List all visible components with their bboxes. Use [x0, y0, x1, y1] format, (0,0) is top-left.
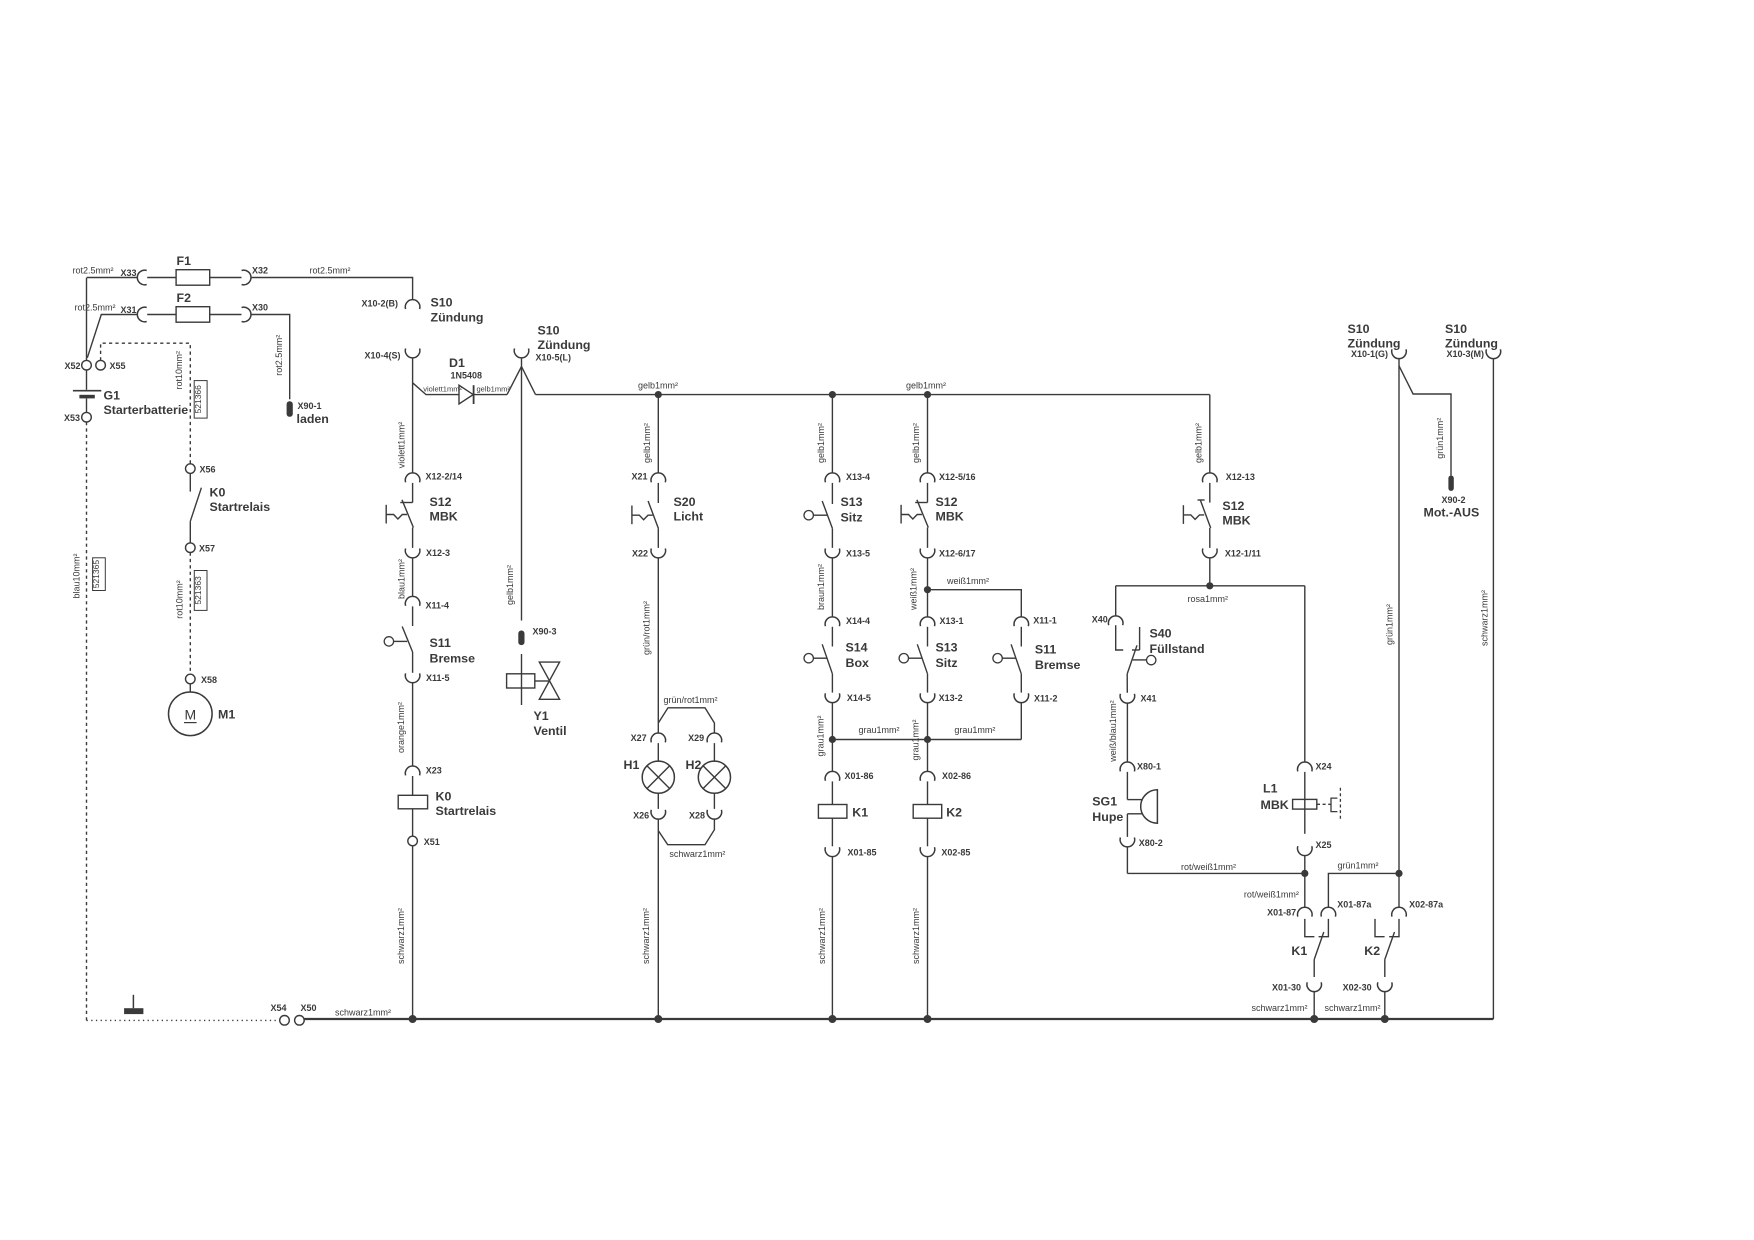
svg-text:X80-1: X80-1 — [1137, 762, 1161, 772]
svg-text:X14-4: X14-4 — [846, 616, 870, 626]
op S12-2 top bar — [915, 502, 927, 504]
svg-text:grau1mm²: grau1mm² — [911, 719, 921, 760]
wire S13 to X13-5 — [831, 528, 833, 548]
svg-text:X13-5: X13-5 — [846, 549, 870, 559]
wire F1 left lead — [147, 277, 176, 279]
actuator S12 MBK-1 — [385, 505, 387, 524]
connector X12-6/17 — [920, 549, 935, 558]
connector X27 — [651, 733, 666, 742]
switch S13 Sitz-1 blade — [822, 501, 832, 528]
svg-text:schwarz1mm²: schwarz1mm² — [396, 908, 406, 964]
svg-text:S10: S10 — [1348, 322, 1370, 336]
svg-text:rot2.5mm²: rot2.5mm² — [73, 266, 114, 276]
svg-text:X13-4: X13-4 — [846, 472, 870, 482]
svg-text:X53: X53 — [64, 413, 80, 423]
connector X31 — [137, 307, 146, 322]
terminal X55 — [96, 360, 106, 370]
wire blau X12-3 to X11-4 — [412, 558, 414, 597]
connector X30 — [242, 307, 251, 322]
switch S12 MBK-2 blade — [917, 500, 928, 528]
terminal X51 — [408, 836, 418, 846]
terminal X57 — [186, 543, 196, 553]
svg-text:weiß1mm²: weiß1mm² — [909, 568, 919, 611]
wire battery to X53 — [86, 398, 88, 412]
terminal X53 — [82, 412, 92, 422]
wire rosa corner to X24 — [1304, 586, 1306, 763]
connector X10-3(M) — [1486, 349, 1501, 358]
wire battery to F2 diagonal — [87, 315, 137, 358]
svg-text:X51: X51 — [424, 837, 440, 847]
svg-text:K2: K2 — [1364, 944, 1380, 958]
svg-text:X12-13: X12-13 — [1226, 472, 1255, 482]
switch S40 top terminal — [1139, 627, 1141, 650]
svg-text:gelb1mm²: gelb1mm² — [911, 423, 921, 463]
svg-text:X11-4: X11-4 — [426, 601, 450, 611]
svg-text:X11-5: X11-5 — [426, 673, 450, 683]
wire branch to X29 — [658, 708, 714, 734]
connector X40 — [1108, 616, 1123, 625]
contact K1 pad left — [1305, 919, 1315, 937]
svg-text:Bremse: Bremse — [1035, 658, 1081, 672]
svg-text:X25: X25 — [1316, 840, 1332, 850]
svg-text:X01-30: X01-30 — [1272, 982, 1301, 992]
wire gelb down to Y1 — [521, 358, 523, 621]
wire branch to X90-2 — [1399, 366, 1451, 476]
svg-text:Box: Box — [846, 656, 870, 670]
svg-text:X13-1: X13-1 — [940, 616, 964, 626]
wire X27 to H1 — [657, 743, 659, 761]
svg-text:weiß/blau1mm²: weiß/blau1mm² — [1108, 700, 1118, 763]
lamp H2 — [698, 761, 730, 793]
svg-text:K1: K1 — [1291, 944, 1307, 958]
connector X01-85 — [825, 847, 840, 856]
connector X02-85 — [920, 847, 935, 856]
wire schwarz X10-3 down — [1492, 358, 1494, 1019]
connector X41 — [1120, 694, 1135, 703]
svg-text:blau1mm²: blau1mm² — [397, 559, 407, 599]
terminal X58 — [186, 674, 196, 684]
connector X90-1 blade terminal — [287, 401, 293, 417]
connector X21 — [651, 473, 666, 482]
svg-text:X50: X50 — [301, 1003, 317, 1013]
svg-text:X10-5(L): X10-5(L) — [536, 353, 572, 363]
contact K1 pad right — [1319, 919, 1329, 937]
svg-text:violett1mm²: violett1mm² — [423, 384, 462, 393]
svg-text:SG1: SG1 — [1092, 795, 1117, 809]
motor M1 — [169, 692, 213, 736]
svg-text:F1: F1 — [177, 254, 192, 268]
svg-text:Licht: Licht — [674, 510, 704, 524]
wire S11 to X11-5 — [412, 652, 414, 673]
terminal X56 — [186, 464, 196, 474]
wire S11-2 to X11-2 — [1020, 674, 1022, 693]
wire orange X11-5 to X23 — [412, 682, 414, 766]
svg-text:Füllstand: Füllstand — [1150, 642, 1205, 656]
svg-text:X11-2: X11-2 — [1034, 694, 1058, 704]
wire rosa to X40 — [1115, 586, 1117, 616]
horn SG1 stub bottom — [1127, 813, 1142, 815]
motor M underline — [184, 722, 197, 724]
fuse F1 — [176, 270, 210, 286]
relay coil K0 — [398, 795, 427, 809]
valve Y1 coil — [507, 674, 535, 688]
terminal X50 — [295, 1016, 305, 1026]
svg-text:schwarz1mm²: schwarz1mm² — [641, 908, 651, 964]
svg-text:rot10mm²: rot10mm² — [174, 351, 184, 390]
svg-text:Sitz: Sitz — [936, 656, 958, 670]
actuator S14 Box — [804, 654, 813, 663]
wire S14 to X14-5 — [831, 674, 833, 693]
wire K1 blade to X01-30 — [1313, 960, 1315, 978]
svg-text:laden: laden — [297, 412, 329, 426]
svg-text:Ventil: Ventil — [534, 724, 567, 738]
connector X13-2 — [920, 693, 935, 702]
svg-text:orange1mm²: orange1mm² — [396, 702, 406, 753]
wire X80-1 to horn — [1126, 772, 1128, 800]
junction grau H — [924, 736, 931, 743]
svg-text:X01-87: X01-87 — [1267, 907, 1296, 917]
actuator S11 Bremse-1 — [384, 637, 393, 646]
wire grau X13-2 to bus — [927, 702, 929, 739]
connector X12-2/14 — [405, 473, 420, 482]
junction rotweiss — [1301, 870, 1308, 877]
actuator S20 — [631, 506, 633, 525]
svg-text:X24: X24 — [1316, 762, 1332, 772]
svg-text:S11: S11 — [1035, 643, 1056, 657]
svg-text:gelb1mm²: gelb1mm² — [816, 423, 826, 463]
svg-text:rot/weiß1mm²: rot/weiß1mm² — [1244, 890, 1299, 900]
wire Y1 coil stub below — [521, 688, 523, 705]
wire X12-2/14 to S12 — [412, 483, 414, 503]
connector X10-5(L) — [514, 349, 529, 358]
svg-text:X02-86: X02-86 — [942, 771, 971, 781]
relay coil K2 — [913, 805, 942, 819]
svg-text:X52: X52 — [64, 361, 80, 371]
connector X14-5 — [825, 693, 840, 702]
wire K2 blade to X02-30 — [1384, 960, 1386, 978]
wire S12-2 to X12-6/17 — [927, 528, 929, 548]
connector X24 — [1298, 762, 1313, 771]
svg-text:Sitz: Sitz — [841, 511, 863, 525]
contact K1 blade — [1314, 932, 1324, 960]
wire X23 to K0 coil — [412, 776, 414, 795]
connector X12-3 — [405, 549, 420, 558]
junction gelb S20 — [655, 391, 662, 398]
junction rosa — [1206, 582, 1213, 589]
svg-text:X14-5: X14-5 — [847, 693, 871, 703]
svg-text:X02-85: X02-85 — [941, 847, 970, 857]
svg-text:Starterbatterie: Starterbatterie — [104, 403, 189, 417]
wire bus to X02-86 — [927, 740, 929, 772]
switch S13 Sitz-2 blade — [917, 644, 927, 674]
svg-text:X90-2: X90-2 — [1442, 495, 1466, 505]
svg-text:braun1mm²: braun1mm² — [816, 564, 826, 610]
wire S40 to X41 — [1126, 674, 1128, 693]
svg-text:X41: X41 — [1141, 694, 1157, 704]
svg-text:K0: K0 — [436, 790, 452, 804]
wire K0 to X57 — [189, 521, 191, 543]
connector X01-87 — [1298, 907, 1313, 916]
svg-text:rot2.5mm²: rot2.5mm² — [310, 266, 351, 276]
svg-text:S40: S40 — [1150, 627, 1172, 641]
wire X02-30 to bus — [1384, 991, 1386, 1019]
switch S14 Box blade — [822, 644, 832, 674]
switch S20 Licht blade — [648, 501, 658, 528]
svg-text:X32: X32 — [252, 266, 268, 276]
ground bus — [304, 1018, 1493, 1020]
connector X80-1 — [1120, 762, 1135, 771]
svg-text:MBK: MBK — [1261, 798, 1289, 812]
wire X32 to S10 ignition — [251, 278, 413, 301]
svg-text:MBK: MBK — [936, 510, 964, 524]
wire X13-4 to S13 — [831, 483, 833, 504]
svg-text:X29: X29 — [688, 733, 704, 743]
svg-text:grau1mm²: grau1mm² — [954, 725, 995, 735]
wire X80-2 to rotweiss bus — [1126, 847, 1128, 874]
svg-text:X33: X33 — [120, 268, 136, 278]
wire gelb to X21 — [657, 395, 659, 474]
svg-text:X11-1: X11-1 — [1033, 616, 1057, 626]
wire X30 to X90-1 — [251, 315, 290, 400]
wire vertical X52 to F1 row — [86, 278, 88, 361]
svg-text:Zündung: Zündung — [538, 338, 591, 352]
wire F1 right lead — [210, 277, 242, 279]
fuse F2 — [176, 307, 210, 323]
svg-text:grün/rot1mm²: grün/rot1mm² — [642, 601, 652, 655]
wire S12-1 to X12-3 — [412, 528, 414, 548]
svg-text:S10: S10 — [431, 295, 453, 309]
contact K2 pad left — [1375, 919, 1385, 937]
svg-text:X58: X58 — [201, 675, 217, 685]
dotted ground wire — [87, 1019, 280, 1021]
svg-text:X12-3: X12-3 — [426, 548, 450, 558]
actuator S13 Sitz-2 — [899, 654, 908, 663]
relay coil K1 — [818, 805, 847, 819]
svg-text:schwarz1mm²: schwarz1mm² — [335, 1008, 391, 1018]
svg-text:D1: D1 — [449, 356, 465, 370]
svg-text:X90-1: X90-1 — [298, 401, 322, 411]
ground symbol — [132, 995, 134, 1008]
svg-text:X02-30: X02-30 — [1343, 982, 1372, 992]
diode D1 cathode bar — [473, 385, 475, 404]
wire H2 to X28 — [713, 793, 715, 809]
wire branch to diode D1 — [413, 383, 459, 395]
actuator S11 Bremse-2 — [993, 654, 1002, 663]
wire X12-1/11 to rosa junction — [1209, 558, 1211, 586]
wire X11-2 to grau bus — [1020, 702, 1022, 739]
wire X12-13 to S12-3 — [1209, 483, 1211, 503]
svg-text:H2: H2 — [686, 758, 702, 772]
actuator S40 link — [1133, 659, 1147, 661]
L1 brake bracket — [1331, 798, 1337, 812]
contact K2 blade — [1385, 932, 1395, 960]
battery G1 plate long — [73, 390, 101, 392]
svg-text:grün1mm²: grün1mm² — [1338, 861, 1379, 871]
svg-text:X23: X23 — [426, 766, 442, 776]
switch S11 Bremse-2 blade — [1011, 644, 1021, 674]
svg-text:schwarz1mm²: schwarz1mm² — [1480, 590, 1490, 646]
wire X11-1 to S11-2 — [1020, 627, 1022, 647]
junction bus H — [924, 1015, 932, 1023]
wire gelb to X13-4 — [831, 395, 833, 474]
wire Y1 coil inner — [521, 674, 523, 688]
connector X10-4(S) — [405, 349, 420, 358]
svg-text:1N5408: 1N5408 — [451, 371, 483, 381]
wire X01-85 to bus — [831, 856, 833, 1019]
wire S12-3 to X12-1/11 — [1209, 528, 1211, 548]
op S12-1 top bar — [400, 502, 412, 504]
connector X02-86 — [920, 771, 935, 780]
connector X01-87a — [1321, 907, 1336, 916]
L1 link dashes — [1317, 803, 1331, 805]
rosa bus — [1116, 585, 1305, 587]
connector X12-1/11 — [1203, 549, 1218, 558]
weiss bus — [928, 590, 1022, 618]
svg-text:K0: K0 — [210, 486, 226, 500]
svg-text:521365: 521365 — [91, 560, 101, 589]
wire lambda left leg — [507, 367, 522, 395]
svg-text:X12-1/11: X12-1/11 — [1225, 549, 1261, 559]
svg-text:Startrelais: Startrelais — [436, 804, 497, 818]
wire dashed X57 to X58 — [189, 553, 191, 675]
connector X10-2(B) — [405, 300, 420, 309]
connector X12-5/16 — [920, 473, 935, 482]
actuator S12 MBK-2 — [900, 505, 902, 524]
connector X11-5 — [405, 673, 420, 682]
svg-text:rosa1mm²: rosa1mm² — [1188, 594, 1229, 604]
svg-text:S10: S10 — [1445, 322, 1467, 336]
junction bus K2 — [1381, 1015, 1389, 1023]
wire S13-2 to X13-2 — [927, 674, 929, 693]
wire braun X13-5 to X14-4 — [831, 558, 833, 618]
L1 brake dashed bar — [1339, 788, 1341, 821]
wire grau X14-5 to bus — [831, 702, 833, 739]
svg-text:X01-86: X01-86 — [845, 771, 874, 781]
valve Y1 body — [539, 662, 559, 699]
wire junction to X13-1 — [927, 590, 929, 618]
wire X24 through L1 coil — [1304, 772, 1306, 834]
svg-text:X55: X55 — [110, 361, 126, 371]
connector X02-87a — [1392, 907, 1407, 916]
svg-text:gelb1mm²: gelb1mm² — [477, 384, 511, 393]
actuator S13 Sitz-1 — [804, 511, 813, 520]
wire X11-4 to S11 — [412, 606, 414, 626]
svg-text:schwarz1mm²: schwarz1mm² — [911, 908, 921, 964]
svg-text:M: M — [184, 707, 196, 723]
wire X28 merge bridge — [658, 819, 714, 845]
connector X28 — [707, 810, 722, 819]
svg-text:S14: S14 — [846, 641, 868, 655]
connector X29 — [707, 733, 722, 742]
svg-text:S11: S11 — [430, 636, 451, 650]
svg-text:rot2.5mm²: rot2.5mm² — [274, 335, 284, 376]
connector X14-4 — [825, 617, 840, 626]
box 521366 — [194, 381, 207, 419]
svg-text:gelb1mm²: gelb1mm² — [1193, 423, 1203, 463]
switch K0 blade — [190, 488, 201, 522]
svg-text:schwarz1mm²: schwarz1mm² — [817, 908, 827, 964]
wire X01-86 to K1 coil — [831, 781, 833, 804]
wire gruen to X02-87a — [1398, 873, 1400, 907]
wire X40 stub L — [1116, 625, 1124, 650]
wire weissblau X41 to X80-1 — [1126, 703, 1128, 763]
svg-text:gelb1mm²: gelb1mm² — [906, 381, 946, 391]
svg-text:X57: X57 — [199, 544, 215, 554]
svg-text:X26: X26 — [633, 811, 649, 821]
wire K2 coil to X02-85 — [927, 818, 929, 846]
svg-text:G1: G1 — [104, 389, 121, 403]
svg-text:X10-1(G): X10-1(G) — [1351, 349, 1388, 359]
junction bus D — [409, 1015, 417, 1023]
actuator S12 MBK-3 — [1182, 505, 1184, 524]
connector X11-2 — [1014, 693, 1029, 702]
svg-text:schwarz1mm²: schwarz1mm² — [1325, 1003, 1381, 1013]
connector X10-1(G) — [1392, 349, 1407, 358]
junction bus K1 — [1310, 1015, 1318, 1023]
wire F2 left lead — [147, 314, 176, 316]
box 521365 — [93, 558, 106, 591]
actuator S40 circle — [1147, 655, 1156, 664]
svg-text:S13: S13 — [841, 495, 863, 509]
svg-text:grau1mm²: grau1mm² — [816, 715, 826, 756]
wire X13-1 to S13-2 — [927, 627, 929, 647]
svg-text:X10-2(B): X10-2(B) — [361, 298, 398, 308]
svg-text:schwarz1mm²: schwarz1mm² — [1252, 1003, 1308, 1013]
wire lambda right leg — [522, 367, 536, 395]
svg-text:gelb1mm²: gelb1mm² — [505, 565, 515, 605]
wire H1 to X26 — [657, 793, 659, 809]
svg-text:X40: X40 — [1092, 615, 1108, 625]
connector X23 — [405, 766, 420, 775]
wire X29 to H2 — [713, 743, 715, 761]
rotweiss bus — [1127, 872, 1304, 874]
wire X14-4 to S14 — [831, 627, 833, 647]
svg-text:521363: 521363 — [193, 576, 203, 605]
svg-text:X27: X27 — [631, 733, 647, 743]
switch S40 blade — [1127, 645, 1137, 674]
svg-text:grün1mm²: grün1mm² — [1385, 604, 1395, 645]
junction grau G — [829, 736, 836, 743]
svg-text:K2: K2 — [946, 806, 962, 820]
wire gruen X10-1 down — [1398, 358, 1400, 873]
svg-text:F2: F2 — [177, 291, 192, 305]
junction gruen — [1395, 870, 1402, 877]
junction bus G — [828, 1015, 836, 1023]
connector X80-2 — [1120, 838, 1135, 847]
wire junction to X01-87 — [1304, 873, 1306, 907]
terminal X52 — [82, 360, 92, 370]
svg-text:X01-87a: X01-87a — [1337, 900, 1372, 910]
svg-text:MBK: MBK — [430, 510, 458, 524]
switch S12 MBK-3 blade — [1200, 500, 1210, 528]
gruen bus left — [1328, 873, 1399, 907]
terminal X54 — [280, 1016, 290, 1026]
wire X12-5/16 to S12-2 — [927, 483, 929, 503]
wire X25 to junction — [1304, 855, 1306, 873]
switch S40 top bar — [1132, 649, 1140, 651]
svg-text:rot2.5mm²: rot2.5mm² — [75, 303, 116, 313]
wire X02-85 to bus — [927, 856, 929, 1019]
wire X01-30 to bus — [1313, 991, 1315, 1019]
svg-text:grau1mm²: grau1mm² — [859, 725, 900, 735]
contact K2 pad right — [1389, 919, 1399, 937]
wire X02-86 to K2 coil — [927, 781, 929, 804]
lamp H1 — [642, 761, 674, 793]
switch S12 MBK blade — [402, 500, 413, 528]
switch S11 Bremse blade — [402, 627, 412, 653]
connector X11-1 — [1014, 617, 1029, 626]
svg-text:S12: S12 — [936, 495, 958, 509]
